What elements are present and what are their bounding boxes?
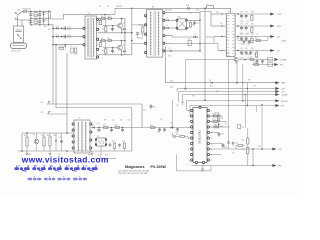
wire +5VSB row [186, 59, 234, 61]
thermistor TH1 [34, 13, 38, 17]
svg-text:R50: R50 [24, 135, 27, 137]
IC1 top pin [199, 106, 201, 108]
wire output rail -12V [235, 25, 270, 27]
resistor R45 [247, 138, 249, 144]
wire [252, 149, 254, 166]
capacitor C6 [64, 35, 65, 39]
arrow output -5V [270, 49, 274, 52]
capacitor C41 [159, 128, 161, 130]
diode D1 [43, 12, 45, 14]
capacitor C33 [232, 142, 234, 143]
svg-text:D5: D5 [194, 34, 196, 36]
svg-text:R26: R26 [247, 54, 250, 56]
svg-text:ZD1: ZD1 [41, 102, 44, 104]
wire vertical x256.8 [256, 106, 258, 113]
wire stub [215, 125, 223, 127]
svg-text:PG: PG [280, 65, 283, 67]
wire vertical x185.5 [185, 60, 187, 89]
svg-text:R24: R24 [251, 48, 254, 50]
wire rail 4 [183, 94, 276, 96]
svg-text:T1: T1 [152, 6, 154, 8]
wire secondary rail 3 [165, 27, 177, 29]
svg-text:L2: L2 [207, 4, 209, 6]
svg-text:C1R C3R R1 C3Q CR5 CR6 C: C1R C3R R1 C3Q CR5 CR6 C7R CB0 [118, 170, 149, 172]
wire bulk rail 2 [53, 36, 84, 38]
resistor R42 [210, 126, 230, 128]
capacitor C38 [122, 128, 124, 130]
resistor R13 [189, 23, 191, 28]
capacitor C40 [119, 144, 121, 145]
wire cell rail [98, 40, 125, 42]
resistor R6 [108, 18, 112, 20]
diode [123, 50, 125, 52]
svg-text:C27: C27 [254, 54, 257, 56]
resistor R47 [238, 145, 243, 147]
resistor R40 [210, 115, 222, 117]
svg-text:GND: GND [281, 83, 286, 85]
capacitor C12 [188, 41, 191, 46]
AC plug P1 [16, 13, 18, 14]
svg-text:D7: D7 [166, 25, 168, 27]
svg-text:C15: C15 [220, 23, 223, 25]
svg-text:R33: R33 [216, 91, 219, 93]
resistor [105, 49, 107, 54]
transformer T2 [85, 16, 97, 59]
svg-text:BD2: BD2 [178, 17, 182, 19]
resistor R56 [123, 143, 125, 149]
svg-text:C46: C46 [127, 120, 130, 122]
capacitor C39 [109, 143, 111, 144]
svg-text:R3: R3 [48, 29, 50, 31]
wire filter mid rail [31, 17, 49, 19]
svg-text:D4: D4 [56, 34, 58, 36]
svg-text:IC2: IC2 [97, 136, 100, 138]
svg-text:-12V: -12V [277, 26, 282, 28]
wire nest corners to IC [178, 92, 180, 103]
wire vsb feed down [228, 60, 230, 63]
resistor R5 [102, 40, 106, 42]
thermistor TH2 [34, 20, 38, 24]
ground stub [202, 166, 204, 170]
diode D11 [93, 126, 95, 128]
wire plug to selector [17, 15, 19, 26]
wire corner to top rail [131, 8, 133, 13]
svg-text:C47: C47 [160, 119, 163, 121]
svg-text:PG: PG [278, 166, 281, 168]
wire bus V3 [66, 53, 68, 133]
wire [187, 27, 190, 29]
capacitor C5 [64, 27, 65, 31]
svg-text:R61: R61 [143, 110, 146, 112]
resistor R9 [99, 42, 101, 46]
diode D2 [43, 20, 45, 22]
arrow VSB out [272, 148, 276, 151]
wire standby top rail [22, 132, 74, 134]
wire bridge output [49, 11, 115, 19]
svg-text:R17: R17 [216, 12, 219, 14]
IC1 right pins [207, 110, 210, 112]
svg-text:R51: R51 [41, 135, 44, 137]
fuse F1 [23, 10, 27, 12]
wire [48, 11, 50, 24]
svg-text:+3.3V: +3.3V [281, 41, 287, 43]
svg-text:www.visitostad.com: www.visitostad.com [21, 155, 109, 165]
wire cell join vertical [124, 19, 126, 55]
wire vertical x247.5 [247, 83, 249, 106]
boxed label VSB [268, 58, 273, 61]
boxed label PG [268, 63, 273, 66]
svg-text:C53: C53 [175, 132, 178, 134]
svg-text:R7: R7 [108, 38, 110, 40]
svg-text:R42: R42 [214, 124, 217, 126]
svg-text:R63: R63 [222, 147, 225, 149]
svg-text:R45: R45 [242, 140, 245, 142]
capacitor C21 [262, 60, 264, 61]
svg-text:R53: R53 [103, 125, 106, 127]
capacitor C36 [98, 128, 100, 130]
capacitor C20 [256, 60, 258, 61]
svg-text:C2: C2 [29, 23, 31, 25]
wire output rail +5V [235, 36, 270, 38]
capacitor C32 [238, 124, 241, 128]
wire standby bottom rail [18, 150, 132, 152]
svg-text:R60: R60 [104, 120, 107, 122]
svg-text:C26: C26 [241, 54, 244, 56]
svg-text:R28: R28 [226, 53, 229, 55]
svg-text:D8: D8 [209, 80, 211, 82]
svg-text:R35: R35 [184, 89, 187, 91]
svg-text:Q5: Q5 [33, 134, 35, 136]
svg-text:C19: C19 [245, 24, 248, 26]
capacitor C43 [172, 133, 174, 137]
svg-text:PG: PG [281, 106, 284, 108]
capacitor [112, 27, 114, 28]
resistor R51 [43, 137, 45, 146]
capacitor bank 3.3 [243, 41, 245, 42]
resistor R20 [250, 59, 254, 61]
wire right vertical x131.8 [131, 14, 133, 55]
wire [64, 45, 66, 49]
wire opto return [95, 158, 116, 160]
diode D3 [56, 27, 58, 29]
wire cell bottom rail [98, 32, 132, 34]
svg-text:C23: C23 [245, 34, 248, 36]
svg-text:R20: R20 [249, 57, 252, 59]
resistor R58 [180, 136, 185, 138]
svg-text:C32: C32 [241, 127, 244, 129]
transistor Q2 [118, 45, 123, 50]
diode D7 [167, 27, 169, 29]
svg-text:C18: C18 [240, 24, 243, 26]
svg-text:C22: C22 [240, 34, 243, 36]
diode D8 [211, 82, 213, 84]
wire [210, 146, 226, 149]
svg-text:R32: R32 [210, 86, 213, 88]
svg-text:C24: C24 [240, 48, 243, 50]
resistor R48 chain right of IC [218, 115, 220, 121]
svg-text:1N4148: 1N4148 [116, 6, 122, 8]
svg-text:R57: R57 [150, 125, 153, 127]
svg-text:R19: R19 [251, 24, 254, 26]
svg-text:1000u: 1000u [240, 57, 244, 59]
svg-text:C52: C52 [253, 86, 256, 88]
svg-text:+5VSB: +5VSB [280, 60, 287, 62]
capacitor bank +5V [241, 37, 243, 39]
resistor load +12V [251, 16, 253, 21]
op-amp supervisor IC1 SG6105D [193, 107, 207, 162]
svg-text:R34: R34 [248, 80, 251, 82]
svg-text:R16: R16 [196, 9, 199, 11]
diode D10 [55, 140, 57, 142]
resistor R41 [210, 121, 226, 123]
diode D12 [171, 127, 173, 129]
svg-text:1000u: 1000u [240, 43, 244, 45]
svg-text:C49: C49 [232, 153, 235, 155]
svg-text:Magnavox: Magnavox [125, 164, 145, 169]
wire feeds from top [236, 61, 238, 83]
svg-text:R10: R10 [102, 29, 105, 31]
transistor Q4 [234, 57, 238, 61]
wire secondary rail 1 [165, 12, 211, 13]
wire AC neutral [18, 19, 31, 21]
svg-text:10: 10 [188, 160, 190, 162]
svg-text:R62: R62 [176, 105, 179, 107]
resistor R1 [59, 47, 64, 49]
wire bulk left vertical [52, 25, 54, 45]
svg-text:D6: D6 [166, 17, 168, 19]
svg-text:C7: C7 [70, 46, 72, 48]
wire bulk rail 3 [53, 44, 84, 46]
svg-text:R18: R18 [251, 12, 254, 14]
resistor R46 [247, 148, 249, 154]
ground symbol G3 [91, 151, 93, 154]
svg-text:+12V: +12V [277, 14, 283, 16]
wire secondary rail 5 [165, 42, 200, 44]
wire top rail B+ [115, 7, 207, 9]
capacitor C7 [71, 48, 73, 53]
svg-text:R21: R21 [253, 62, 256, 64]
capacitor C4 [39, 21, 42, 22]
svg-text:R41: R41 [213, 119, 216, 121]
resistor R57 [151, 127, 156, 129]
svg-text:C11: C11 [196, 23, 199, 25]
wire IC bottom loop [177, 155, 212, 171]
optocoupler IC2 [96, 138, 106, 146]
svg-text:BD1: BD1 [44, 26, 47, 28]
wire output rail +12V [235, 13, 270, 15]
wire to T1 tap2 [132, 24, 146, 26]
svg-text:10V: 10V [247, 21, 250, 23]
capacitor C30 [210, 132, 219, 134]
svg-text:R23: R23 [251, 34, 254, 36]
resistor pair 3.3 [256, 40, 261, 42]
svg-text:SW: SW [17, 10, 20, 12]
capacitor C1 [29, 14, 32, 15]
svg-text:D9: D9 [169, 48, 171, 50]
wire long vertical to IC [204, 8, 206, 100]
svg-text:TH2: TH2 [34, 18, 37, 20]
wire rail 2 [177, 88, 276, 90]
svg-text:R27: R27 [168, 56, 171, 58]
wire vertical x228.5 [228, 62, 230, 149]
arrow output +5V [270, 35, 274, 38]
arrow +5VSB [274, 58, 278, 61]
capacitor bank +12V [241, 14, 243, 16]
diode D6 [167, 19, 169, 21]
capacitor C3 [39, 14, 42, 15]
svg-text:D2: D2 [45, 20, 47, 22]
ground symbol G1 [26, 151, 28, 154]
wire rail 5 [187, 100, 276, 102]
svg-text:C1: C1 [29, 12, 31, 14]
resistor R50 [26, 137, 28, 146]
wire [210, 12, 212, 27]
voltage selector switch SW2 [14, 26, 24, 43]
svg-text:R52: R52 [47, 135, 50, 137]
svg-text:C33: C33 [235, 143, 238, 145]
svg-text:PX-300W: PX-300W [151, 165, 167, 169]
wire rail 3.3 companion [237, 37, 239, 41]
wire output rail -5V [235, 50, 270, 52]
svg-text:C35: C35 [59, 137, 62, 139]
arrow PG out [272, 164, 276, 167]
capacitor C31 [210, 143, 223, 145]
wire secondary rail 4 [165, 36, 194, 37]
svg-text:C20: C20 [255, 57, 258, 59]
wire bus V1 [53, 45, 142, 128]
svg-text:SG6105D: SG6105D [198, 129, 202, 143]
svg-text:R55: R55 [112, 141, 115, 143]
choke L1 [226, 13, 235, 57]
watermark persian line 1 [14, 167, 19, 170]
wire +5VSB bottom rail [227, 148, 272, 150]
resistor R52 [49, 137, 51, 146]
resistor load +5V [251, 38, 253, 43]
resistor load -5V [255, 52, 257, 57]
resistor [105, 27, 107, 32]
svg-text:R6: R6 [108, 16, 110, 18]
diode D4 [56, 35, 58, 37]
wire rail 6 [190, 105, 276, 107]
svg-text:C48: C48 [181, 102, 184, 104]
svg-text:R58: R58 [176, 134, 179, 136]
wire PG bottom rail [192, 165, 273, 167]
svg-text:Q4: Q4 [227, 56, 229, 58]
capacitor C11 [194, 20, 196, 22]
wire [39, 11, 41, 24]
fuse F2 on top rail [207, 6, 214, 9]
wire bulk rail 1 [53, 27, 84, 29]
wire secondary rail 2 [165, 19, 177, 21]
svg-text:R40: R40 [213, 113, 216, 115]
svg-text:C8: C8 [107, 6, 109, 8]
resistor R7 [108, 40, 112, 42]
wire choke feeds [211, 13, 226, 15]
svg-text:R5: R5 [101, 38, 103, 40]
wire [30, 11, 32, 24]
svg-text:R64: R64 [258, 146, 261, 148]
svg-text:R54: R54 [115, 125, 118, 127]
capacitor bank -5V [241, 51, 243, 53]
wire cell bottom rail [98, 54, 132, 56]
svg-text:D3: D3 [56, 25, 58, 27]
resistor R12 [142, 27, 144, 32]
wire to T1 tap4 [132, 42, 146, 44]
wire secondary verticals [199, 13, 201, 51]
wire [138, 37, 144, 39]
transformer T1 [147, 10, 163, 58]
svg-text:+5V: +5V [277, 37, 281, 39]
svg-text:20: 20 [211, 110, 213, 112]
transistor Q1 [118, 23, 123, 28]
svg-text:R4: R4 [101, 16, 103, 18]
svg-text:C8: C8 [74, 54, 76, 56]
svg-text:D11: D11 [92, 125, 95, 127]
wire standby secondary rail [91, 127, 142, 129]
svg-text:C41: C41 [157, 132, 160, 134]
svg-text:TH1: TH1 [34, 11, 37, 13]
capacitor C37 [111, 128, 113, 130]
svg-text:D13: D13 [120, 120, 123, 122]
svg-text:SBL2040: SBL2040 [165, 9, 172, 11]
svg-text:C12: C12 [188, 39, 191, 41]
svg-text:C16: C16 [240, 12, 243, 14]
svg-text:R25: R25 [255, 38, 258, 40]
capacitor C53 [177, 128, 179, 129]
rectifier module BD2 [177, 19, 187, 30]
svg-text:115V/230V: 115V/230V [11, 51, 21, 53]
svg-text:C30: C30 [221, 134, 224, 136]
capacitor C35 [61, 140, 63, 141]
svg-text:D10: D10 [53, 135, 56, 137]
svg-text:C9: C9 [140, 33, 142, 35]
svg-text:R67: R67 [170, 123, 173, 125]
svg-text:C36: C36 [97, 123, 100, 125]
resistor R55 [113, 143, 115, 149]
wire [22, 10, 23, 12]
wire filter bottom rail [31, 24, 53, 26]
resistor R53 [104, 127, 109, 129]
svg-text:R9: R9 [96, 45, 98, 47]
svg-text:+5VSB: +5VSB [281, 95, 288, 97]
arrow output -12V [270, 25, 274, 28]
svg-text:R31: R31 [170, 86, 173, 88]
svg-text:C17: C17 [245, 12, 248, 14]
capacitor C2 [29, 21, 32, 22]
resistor R8 [99, 20, 101, 24]
svg-text:15: 15 [211, 138, 213, 140]
wire PG row [252, 64, 274, 66]
svg-text:+5V: +5V [278, 149, 282, 151]
svg-text:L1: L1 [228, 11, 230, 13]
resistor load -12V [251, 28, 253, 33]
transformer T3 [74, 120, 90, 153]
capacitor C9 [136, 33, 139, 34]
wire secondary rail 6 [165, 50, 200, 52]
wire AC line top rail [27, 10, 49, 12]
IC1 bottom pins [195, 161, 197, 163]
resistor R4 [102, 18, 106, 20]
svg-text:R56: R56 [122, 141, 125, 143]
svg-text:PS-ON: PS-ON [281, 101, 288, 103]
svg-text:11: 11 [211, 160, 213, 162]
svg-text:1000u: 1000u [240, 21, 244, 23]
transistor Q5 [34, 139, 39, 144]
svg-text:R11: R11 [102, 51, 105, 53]
svg-text:R36: R36 [192, 96, 195, 98]
capacitor C42 [164, 128, 166, 130]
AC receptacle [11, 43, 27, 49]
